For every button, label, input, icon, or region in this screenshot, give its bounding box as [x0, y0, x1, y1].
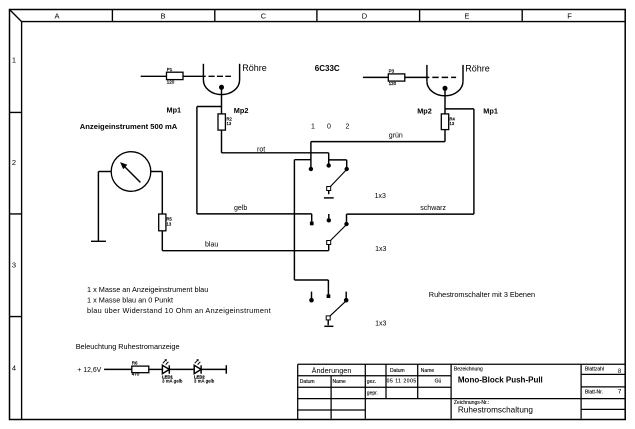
svg-text:blau über Widerstand 10 Ohm an: blau über Widerstand 10 Ohm an Anzeigein… [87, 306, 271, 315]
svg-text:Mono-Block Push-Pull: Mono-Block Push-Pull [458, 376, 543, 385]
svg-text:13: 13 [450, 121, 455, 126]
svg-text:Name: Name [421, 368, 435, 374]
svg-text:Beleuchtung Ruhestromanzeige: Beleuchtung Ruhestromanzeige [76, 342, 180, 351]
svg-text:13: 13 [227, 121, 232, 126]
svg-text:2: 2 [12, 158, 16, 167]
svg-text:gelb: gelb [234, 205, 247, 212]
svg-text:1 x Masse an Anzeigeinstrument: 1 x Masse an Anzeigeinstrument blau [87, 285, 208, 294]
svg-text:Datum: Datum [390, 368, 405, 374]
svg-text:E: E [464, 11, 469, 20]
svg-text:3 mA gelb: 3 mA gelb [194, 379, 215, 384]
svg-text:schwarz: schwarz [420, 205, 446, 212]
svg-text:3: 3 [12, 261, 16, 270]
svg-text:Mp2: Mp2 [417, 107, 432, 116]
svg-text:Blatt-Nr.: Blatt-Nr. [585, 390, 603, 396]
svg-text:Gü: Gü [435, 379, 442, 385]
svg-text:120: 120 [167, 79, 175, 84]
svg-text:1x3: 1x3 [375, 193, 386, 200]
svg-text:C: C [261, 11, 267, 20]
svg-text:Mp1: Mp1 [167, 105, 182, 114]
svg-text:Datum: Datum [300, 379, 315, 385]
svg-text:2: 2 [346, 123, 350, 130]
svg-text:4: 4 [12, 363, 16, 372]
svg-text:1x3: 1x3 [375, 246, 386, 253]
svg-text:1: 1 [311, 123, 315, 130]
svg-text:B: B [160, 11, 165, 20]
svg-text:Änderungen: Änderungen [312, 366, 352, 375]
svg-text:Blattzahl: Blattzahl [585, 367, 604, 373]
svg-text:05 11 2005: 05 11 2005 [387, 379, 417, 385]
svg-text:gepr.: gepr. [367, 391, 378, 397]
svg-text:F: F [567, 11, 572, 20]
svg-text:470: 470 [132, 372, 140, 377]
svg-text:blau: blau [205, 242, 218, 249]
svg-text:120: 120 [389, 81, 397, 86]
svg-text:gez.: gez. [367, 379, 376, 385]
svg-text:13: 13 [167, 222, 172, 227]
svg-text:grün: grün [389, 132, 403, 139]
svg-text:Name: Name [333, 379, 347, 385]
svg-text:Mp2: Mp2 [234, 106, 249, 115]
svg-text:R6: R6 [132, 361, 138, 366]
svg-text:Bezeichnung: Bezeichnung [454, 366, 483, 372]
svg-text:7: 7 [618, 389, 622, 396]
svg-text:Röhre: Röhre [465, 64, 490, 74]
svg-text:Röhre: Röhre [242, 63, 267, 73]
svg-text:0: 0 [327, 123, 331, 130]
svg-text:6C33C: 6C33C [315, 64, 340, 73]
svg-text:Anzeigeinstrument 500 mA: Anzeigeinstrument 500 mA [80, 122, 178, 131]
svg-text:1: 1 [12, 56, 16, 65]
svg-text:P3: P3 [389, 69, 395, 74]
svg-text:Ruhestromschalter mit 3 Ebenen: Ruhestromschalter mit 3 Ebenen [429, 290, 535, 299]
svg-text:Mp1: Mp1 [483, 107, 498, 116]
svg-text:+ 12,6V: + 12,6V [77, 367, 101, 374]
svg-text:1 x Masse blau an 0 Punkt: 1 x Masse blau an 0 Punkt [87, 296, 173, 305]
svg-text:D: D [362, 11, 368, 20]
svg-text:P1: P1 [167, 67, 173, 72]
svg-text:1x3: 1x3 [375, 320, 386, 327]
svg-text:Ruhestromschaltung: Ruhestromschaltung [458, 405, 534, 414]
svg-text:rot: rot [257, 146, 265, 153]
svg-text:3 mA gelb: 3 mA gelb [162, 379, 183, 384]
svg-text:A: A [54, 11, 59, 20]
